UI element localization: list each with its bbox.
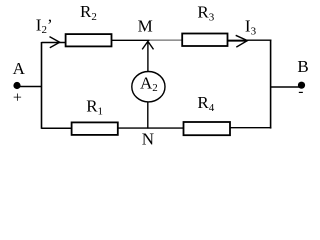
wire ammeter top shaft toward M [147, 41, 149, 72]
ammeter U1 A2 body [132, 72, 165, 102]
wire node M to R3 [150, 39, 183, 41]
wire stub right rail to node B [271, 86, 300, 88]
resistor R4 [184, 122, 231, 135]
node A terminal dot [13, 82, 20, 89]
svg-text:B: B [297, 57, 308, 76]
resistor R1 [72, 122, 118, 134]
wire arrow tip to top-right corner [247, 39, 271, 41]
wire left vertical A-side [41, 42, 43, 129]
wire stub node A to left rail [18, 86, 42, 88]
arrowhead current I2' [50, 37, 60, 48]
arrowhead current I3 [236, 35, 248, 47]
wire top-left to R2 [42, 42, 66, 44]
resistor R2 [66, 34, 112, 46]
wire R4 to bottom-right corner [230, 127, 271, 129]
arrowhead ammeter pointer to M [142, 41, 153, 49]
wire bottom-left to R1 [42, 127, 72, 129]
resistor R3 [182, 34, 227, 47]
svg-text:M: M [138, 17, 153, 36]
wire right vertical B-side [270, 40, 272, 129]
svg-text:+: + [13, 89, 22, 106]
svg-text:N: N [142, 130, 154, 149]
wire R1 to node N to R4 [118, 127, 184, 129]
wire ammeter bottom to node N [147, 102, 149, 129]
wire R2 to node M [112, 39, 150, 41]
svg-text:-: - [298, 83, 303, 100]
svg-text:A: A [13, 59, 26, 78]
node B terminal dot [298, 82, 305, 89]
wire R3 to arrow tip [228, 40, 247, 42]
